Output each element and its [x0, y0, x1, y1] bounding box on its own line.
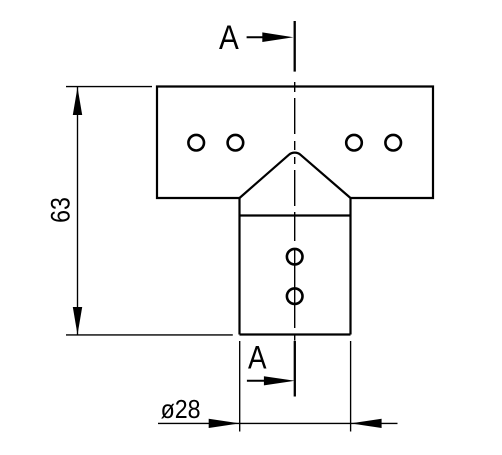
svg-text:A: A — [248, 340, 267, 376]
svg-text:63: 63 — [45, 197, 75, 223]
svg-text:ø28: ø28 — [161, 394, 201, 424]
svg-text:A: A — [219, 19, 239, 57]
